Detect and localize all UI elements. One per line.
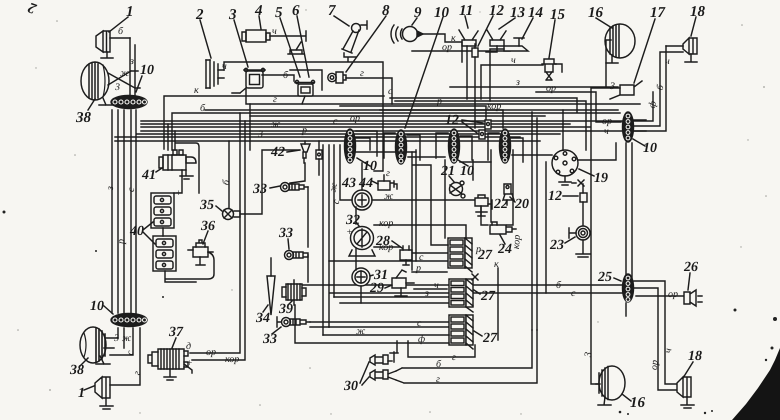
svg-text:3: 3	[228, 7, 237, 23]
wire v118	[117, 110, 119, 313]
label 10 mid	[363, 159, 377, 174]
svg-text:18: 18	[688, 349, 702, 364]
wire v136	[135, 110, 137, 313]
black blob corner	[732, 348, 780, 420]
leader 34	[263, 305, 268, 312]
svg-text:10: 10	[643, 141, 657, 156]
leader	[683, 362, 693, 378]
svg-text:г: г	[273, 94, 277, 105]
leader 17	[634, 19, 655, 83]
connector 25	[623, 274, 634, 302]
svg-text:з: з	[105, 186, 116, 191]
leader 1	[109, 17, 128, 32]
leader	[633, 139, 645, 146]
wires: top-left band horizontals	[115, 62, 640, 171]
svg-text:ор: ор	[668, 289, 678, 300]
wire label zh	[114, 68, 130, 93]
wire v431	[413, 165, 448, 245]
label 15	[550, 7, 566, 23]
component 13 switch	[486, 30, 506, 52]
wire or y92	[536, 92, 621, 122]
wire y303	[340, 302, 450, 304]
svg-text:з: з	[129, 56, 134, 67]
component 12 sensor mid-right	[580, 184, 587, 226]
svg-text:40: 40	[129, 224, 144, 239]
svg-text:г: г	[360, 68, 364, 79]
wire kor gen	[192, 121, 245, 360]
svg-text:ф: ф	[418, 334, 425, 345]
wire labels band left	[194, 85, 393, 205]
wire o y261	[329, 260, 447, 262]
wire v340	[340, 145, 352, 200]
wire h152	[356, 151, 416, 153]
component 22	[475, 195, 492, 216]
wire f v653	[634, 92, 653, 121]
label 3	[228, 7, 237, 23]
svg-text:23: 23	[549, 238, 564, 253]
wire v498	[497, 268, 499, 340]
component 2 horn-vibrator	[206, 60, 224, 88]
wire v513	[507, 150, 513, 225]
leader 42	[287, 150, 300, 152]
svg-text:3: 3	[609, 81, 615, 92]
left vertical bundle	[112, 110, 136, 313]
leader 24	[500, 235, 505, 244]
leader 41	[156, 168, 162, 172]
svg-text:з: з	[515, 77, 520, 88]
svg-text:32: 32	[345, 213, 360, 228]
wire label zh	[356, 326, 366, 337]
label 34	[255, 311, 270, 326]
svg-text:ор: ор	[442, 42, 452, 53]
svg-text:42: 42	[270, 145, 285, 160]
label 12 top	[489, 3, 505, 19]
leader 38	[88, 99, 95, 110]
wire v250	[249, 104, 251, 150]
wire label r	[436, 96, 442, 107]
wire labels	[113, 333, 136, 356]
label 33b	[278, 226, 293, 241]
svg-text:р: р	[301, 125, 307, 136]
svg-text:16: 16	[630, 395, 646, 411]
wire v112	[111, 110, 113, 313]
leader	[357, 158, 370, 166]
svg-text:33: 33	[262, 332, 277, 347]
leader 7	[334, 16, 349, 26]
spark plug 30 lower	[370, 370, 396, 380]
label 33a	[252, 182, 267, 197]
svg-text:к: к	[194, 85, 199, 96]
wire or y121	[141, 120, 622, 122]
wire ch v666	[634, 46, 666, 131]
svg-text:20: 20	[514, 197, 529, 212]
wire y134	[137, 133, 560, 135]
svg-text:10: 10	[460, 164, 474, 179]
svg-text:кор: кор	[225, 354, 239, 365]
wires below 25	[634, 281, 677, 384]
wire ch y131	[141, 130, 622, 132]
leader 20	[510, 197, 515, 202]
wire h162	[460, 161, 491, 163]
headlight 16 bottom	[596, 366, 625, 405]
gauge sender 44	[374, 171, 397, 190]
leader 10 top long	[405, 17, 443, 128]
svg-text:ж: ж	[384, 191, 394, 202]
wire label ch	[434, 280, 439, 291]
antenna 34	[267, 258, 275, 315]
headlight 16 top	[605, 24, 635, 87]
page corner glyph	[26, 0, 40, 17]
wire label or	[206, 347, 216, 358]
connector 10 bottom oval	[111, 314, 147, 327]
leader	[84, 386, 94, 390]
label 11	[459, 3, 473, 19]
svg-text:17: 17	[650, 5, 666, 21]
component 36 sensor	[188, 240, 213, 265]
wire v416	[415, 150, 417, 261]
label 29	[369, 281, 384, 296]
glow plug 33b	[285, 251, 309, 283]
svg-text:ч: ч	[511, 55, 516, 66]
svg-text:ч: ч	[434, 280, 439, 291]
wire v546	[545, 162, 547, 293]
component 15 sensor	[542, 59, 556, 80]
toggle switch small	[288, 42, 304, 54]
component 24	[490, 222, 516, 234]
wire label o	[419, 252, 424, 263]
leader 19	[579, 169, 594, 176]
wire label zh	[384, 191, 394, 202]
leader 8	[346, 16, 386, 72]
wire b y285	[300, 284, 622, 286]
component 17 dimmer	[591, 81, 642, 384]
wire y137	[115, 136, 520, 138]
right connector 10 (x628)	[623, 112, 634, 142]
wire label kor	[487, 101, 501, 112]
wire k y96	[164, 96, 384, 149]
leader	[80, 358, 88, 366]
wire k y62	[224, 62, 383, 171]
svg-text:3: 3	[114, 82, 120, 93]
wire v445	[444, 160, 446, 238]
component 12 fuse top	[472, 44, 478, 128]
label 14	[528, 5, 544, 21]
wire labels or ch	[602, 116, 612, 137]
leader 44	[372, 181, 378, 184]
wire s y293	[330, 292, 622, 294]
label 10 bottom	[90, 299, 104, 314]
svg-text:с: с	[419, 252, 424, 263]
svg-text:41: 41	[141, 168, 156, 183]
svg-text:р: р	[415, 263, 421, 274]
svg-text:13: 13	[510, 5, 526, 21]
labels 21 10	[440, 164, 474, 179]
svg-text:33: 33	[252, 182, 267, 197]
wires to starter	[168, 124, 175, 150]
headlight 38 (top)	[81, 62, 140, 105]
leader 27b	[474, 290, 480, 294]
wire or y51	[412, 50, 510, 52]
svg-text:д: д	[186, 341, 191, 352]
leader 11	[465, 16, 468, 28]
wire z y297	[334, 296, 450, 298]
label 39	[278, 302, 293, 317]
wire or to 26	[636, 295, 684, 297]
mid connector (x454)	[449, 129, 460, 163]
svg-text:г: г	[452, 352, 456, 363]
component 35	[176, 141, 299, 220]
mid connector (x505)	[500, 129, 511, 163]
wire stub 15 right	[555, 64, 562, 72]
svg-text:12: 12	[489, 3, 505, 19]
wire g y383	[396, 330, 537, 383]
svg-text:ж: ж	[356, 326, 366, 337]
leader 33c	[272, 327, 281, 334]
component 7 footswitch	[342, 21, 367, 61]
glow plug 33c bottom	[277, 317, 448, 327]
leader 21	[449, 176, 455, 183]
wire label k	[451, 33, 456, 44]
label 42	[270, 145, 285, 160]
label 27c	[482, 331, 498, 346]
wire label b	[221, 178, 233, 186]
svg-text:27: 27	[482, 331, 498, 346]
svg-text:ч: ч	[272, 26, 277, 37]
svg-text:г: г	[436, 374, 440, 385]
labels d plus	[186, 341, 193, 369]
svg-text:кор: кор	[379, 218, 393, 229]
leader	[104, 306, 113, 314]
svg-text:г: г	[386, 168, 390, 179]
leader 18	[691, 17, 696, 36]
component 26 buzzer	[684, 290, 702, 306]
wire g y104	[246, 88, 640, 104]
svg-text:кор: кор	[511, 234, 523, 249]
wire v362 link	[355, 248, 357, 270]
wire label 3	[515, 77, 520, 88]
leader 15	[549, 20, 555, 58]
wire labels b s	[556, 280, 576, 299]
wire r y272	[412, 271, 447, 273]
leader 27c	[474, 331, 482, 336]
leader 10	[136, 76, 142, 92]
wire label ch	[222, 26, 289, 81]
svg-text:38: 38	[75, 110, 92, 126]
leader 3	[234, 20, 248, 67]
label 10 right	[643, 141, 657, 156]
leader 14	[522, 18, 533, 39]
label 18	[690, 4, 706, 20]
wire label s	[417, 318, 422, 329]
label 2	[195, 7, 204, 23]
label 31	[373, 268, 388, 283]
svg-text:33: 33	[278, 226, 293, 241]
leader 9	[412, 18, 417, 25]
label 41	[141, 168, 156, 183]
svg-text:ор: ор	[649, 360, 661, 371]
svg-text:5: 5	[275, 5, 283, 21]
label 12 right	[548, 189, 562, 204]
label 16	[588, 5, 604, 21]
svg-text:44: 44	[358, 176, 373, 191]
leader 28	[392, 241, 402, 248]
battery wiring	[163, 170, 196, 282]
svg-text:3: 3	[113, 333, 119, 344]
label 19	[594, 171, 608, 186]
wire 36 to right	[166, 252, 214, 279]
distributor 19	[512, 110, 646, 185]
wire labels right	[583, 56, 674, 371]
svg-text:11: 11	[459, 3, 473, 19]
label 1 bottom	[78, 386, 85, 401]
wire y127	[141, 126, 590, 128]
leader 39	[288, 301, 292, 305]
leader 32	[356, 222, 359, 226]
leader 33b	[288, 239, 289, 249]
svg-text:р: р	[116, 239, 127, 245]
wire ch y289	[414, 288, 447, 290]
svg-text:19: 19	[594, 171, 608, 186]
wire h157	[408, 156, 445, 158]
component 5-6 relay	[262, 70, 322, 104]
label 32	[345, 213, 360, 238]
svg-text:43: 43	[341, 176, 356, 191]
component 42 filter	[301, 141, 310, 163]
lamp 1 (top)	[96, 31, 135, 95]
svg-text:14: 14	[528, 5, 544, 21]
wire v131	[130, 110, 132, 313]
lamp 18 top	[666, 38, 697, 62]
leader 6	[297, 16, 309, 77]
svg-text:27: 27	[480, 289, 496, 304]
component 20 plug	[503, 184, 514, 205]
label 7	[328, 3, 336, 19]
wire label kor	[225, 354, 239, 365]
label 26	[683, 260, 698, 275]
wire label b	[118, 26, 124, 37]
wire v632	[631, 143, 633, 278]
wire f y343	[295, 305, 449, 343]
wire kor y110	[380, 110, 503, 128]
generator 37	[148, 349, 192, 380]
wire z y87 to comp17	[450, 86, 618, 88]
wire v323	[322, 145, 324, 335]
label 38	[75, 110, 92, 126]
wires v528 v540 upper	[532, 112, 537, 330]
svg-text:кор: кор	[487, 101, 501, 112]
component 23 filter	[569, 226, 590, 257]
label 37	[168, 325, 184, 340]
leader 29	[385, 285, 392, 288]
wire label kor vertical	[511, 234, 523, 249]
regulator 28	[400, 246, 448, 265]
leader 26	[688, 273, 690, 290]
svg-text:29: 29	[369, 281, 384, 296]
wire label z	[424, 288, 429, 299]
wire label ch	[511, 55, 516, 66]
label 10 (top-left connector)	[140, 63, 154, 78]
leader 25	[614, 278, 621, 281]
fuse on wire x319	[316, 141, 322, 175]
leader	[622, 394, 631, 401]
leaders 40	[143, 222, 155, 244]
wire b v660	[634, 52, 683, 126]
svg-text:25: 25	[597, 270, 612, 285]
leader 4	[259, 16, 261, 29]
wire v124	[123, 110, 125, 313]
wire y99	[390, 98, 577, 112]
specks	[3, 211, 778, 416]
label 13	[510, 5, 526, 21]
label 18 bottom	[688, 349, 702, 364]
wire or gen	[190, 113, 240, 353]
battery 40 lower	[153, 236, 176, 271]
wire v334	[333, 145, 335, 297]
label 40	[129, 224, 144, 239]
wire v329	[328, 145, 330, 327]
leader 37	[172, 338, 176, 348]
svg-text:15: 15	[550, 7, 566, 23]
fuse block 27b	[449, 279, 473, 312]
svg-text:ж: ж	[122, 333, 132, 344]
gauge 32 ammeter	[349, 225, 466, 256]
spark plug 30 upper	[370, 341, 398, 365]
label 17	[650, 5, 666, 21]
svg-text:10: 10	[90, 299, 104, 314]
lamp 18 bottom	[677, 377, 694, 408]
wire label b	[436, 359, 442, 370]
wire label f	[418, 334, 425, 345]
leaders 30	[360, 362, 369, 385]
gauge 31	[352, 268, 370, 303]
label 27a	[475, 244, 493, 263]
wire label 3 at 17	[609, 81, 615, 92]
wire r y106	[340, 106, 486, 120]
svg-text:28: 28	[375, 234, 390, 249]
label 1	[126, 4, 134, 20]
wire loops around connectors	[356, 131, 523, 162]
svg-text:12: 12	[548, 189, 562, 204]
label 4	[254, 3, 263, 19]
wire v412	[411, 152, 413, 270]
leader 13	[499, 18, 515, 29]
wire v473	[472, 160, 474, 180]
wire b y113	[172, 113, 620, 150]
label 36	[200, 219, 215, 234]
wire zh y335	[323, 334, 449, 336]
wire label g	[132, 370, 144, 376]
svg-text:с: с	[417, 318, 422, 329]
svg-text:з: з	[424, 288, 429, 299]
gauge 43	[352, 163, 488, 225]
component 14 lamp tray	[490, 38, 528, 101]
starter 41	[159, 150, 196, 179]
wire label k	[494, 259, 499, 270]
wire y124	[141, 123, 570, 125]
svg-text:10: 10	[434, 5, 450, 21]
wire label g	[386, 168, 390, 179]
component 12 fuse mid	[479, 120, 491, 139]
svg-text:39: 39	[278, 302, 293, 317]
label 28	[375, 234, 390, 249]
battery 40 upper	[151, 193, 174, 228]
svg-text:с: с	[571, 288, 576, 299]
horn 9	[391, 25, 462, 62]
leader	[563, 195, 578, 197]
svg-text:ж: ж	[271, 119, 281, 130]
label 33c	[262, 332, 277, 347]
label 30	[343, 379, 358, 394]
